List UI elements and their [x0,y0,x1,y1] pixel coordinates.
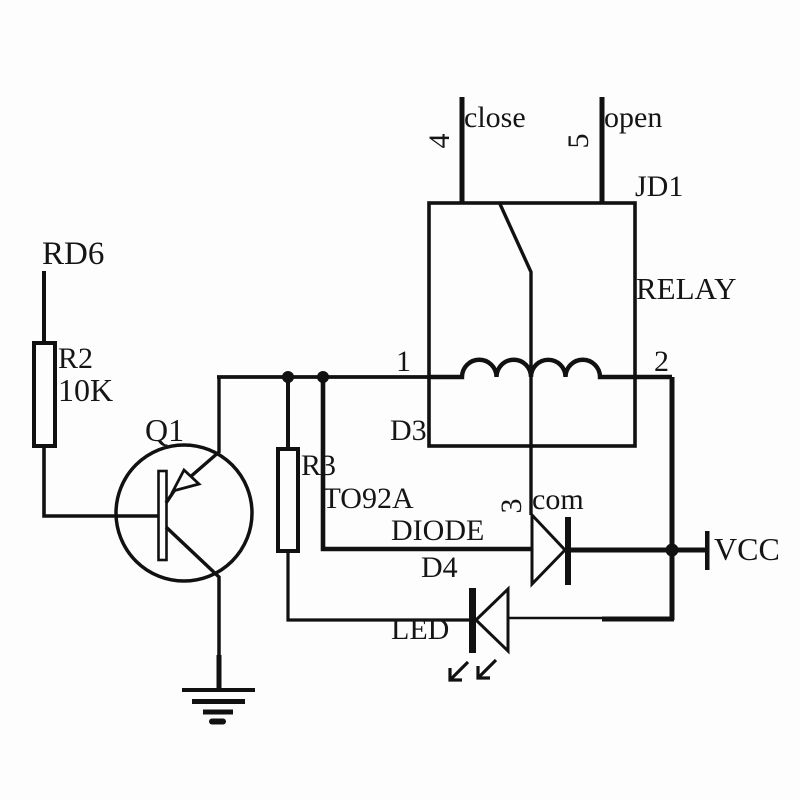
svg-text:10K: 10K [58,372,113,408]
svg-text:1: 1 [396,345,411,378]
transistor Q1 base bar [159,471,167,560]
svg-text:4: 4 [423,134,456,149]
wire pin2 to VCC node [670,377,675,620]
transistor Q1 arrow [173,470,199,491]
wire pin4 close [460,97,465,203]
LED arrow 2 [478,660,496,678]
junction node dot B [317,371,329,383]
svg-text:5: 5 [562,134,595,149]
svg-text:LED: LED [391,613,449,646]
wire LED right thin [508,617,604,620]
svg-text:R3: R3 [301,449,336,482]
svg-text:open: open [604,101,662,134]
svg-text:TO92A: TO92A [323,482,414,515]
svg-text:R2: R2 [58,342,93,375]
svg-text:com: com [532,483,584,516]
diode D3 triangle [532,515,565,584]
svg-text:D3: D3 [390,414,427,447]
LED arrow 1 [450,662,468,680]
svg-text:VCC: VCC [714,531,780,567]
wire LED right thick [602,617,674,622]
svg-text:RD6: RD6 [42,236,104,272]
wire D3 to VCC [568,548,707,553]
transistor Q1 circle [116,445,252,581]
LED D4 cathode bar [469,588,476,653]
transistor Q1 collector lead [166,377,219,503]
resistor R3 [278,449,298,551]
collector bus wire [217,375,429,379]
transistor Q1 emitter lead [166,527,219,657]
svg-text:JD1: JD1 [635,170,683,203]
wire node B to diode bus [323,377,532,549]
junction node dot VCC [666,544,679,557]
wire RD6 to R2 [42,271,46,345]
wire R3 to LED [288,551,469,620]
svg-text:D4: D4 [421,551,458,584]
svg-text:RELAY: RELAY [636,271,736,306]
svg-text:DIODE: DIODE [391,514,484,547]
svg-text:Q1: Q1 [145,412,184,448]
ground [182,690,255,722]
diode D3 cathode bar [565,517,571,585]
relay coil [429,360,672,377]
emitter wire to ground [217,655,222,690]
svg-text:3: 3 [495,499,528,514]
VCC terminal bar [705,531,710,570]
LED D4 triangle [476,589,508,651]
wire node A to R3 [286,377,290,449]
svg-text:2: 2 [654,345,669,378]
junction node dot A [282,371,294,383]
relay switch arm [500,204,531,515]
resistor R2 [34,343,55,446]
svg-text:close: close [464,101,526,134]
relay JD1 box [429,203,635,446]
wire pin5 open [600,97,605,203]
wire R2 to base [44,446,159,516]
